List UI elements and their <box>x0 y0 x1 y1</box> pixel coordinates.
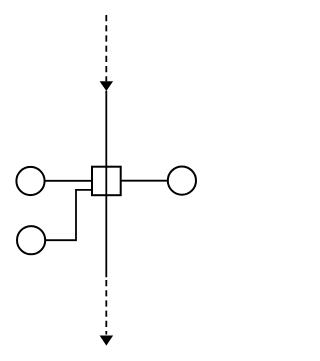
node: left circle <box>16 167 44 195</box>
wire: main vertical line <box>105 91 107 278</box>
wire: top dashed flow line <box>105 15 107 81</box>
node: right circle <box>168 167 196 195</box>
bottom arrowhead <box>100 336 114 346</box>
node: lower-left circle <box>17 226 45 254</box>
junction box <box>92 167 121 196</box>
top arrowhead <box>100 81 114 91</box>
wire: bottom dashed flow line <box>105 280 107 335</box>
wire: lower-left circle L-shaped to box <box>45 190 92 240</box>
wire: box to right circle <box>121 180 168 182</box>
wire: left circle to box <box>44 180 92 182</box>
